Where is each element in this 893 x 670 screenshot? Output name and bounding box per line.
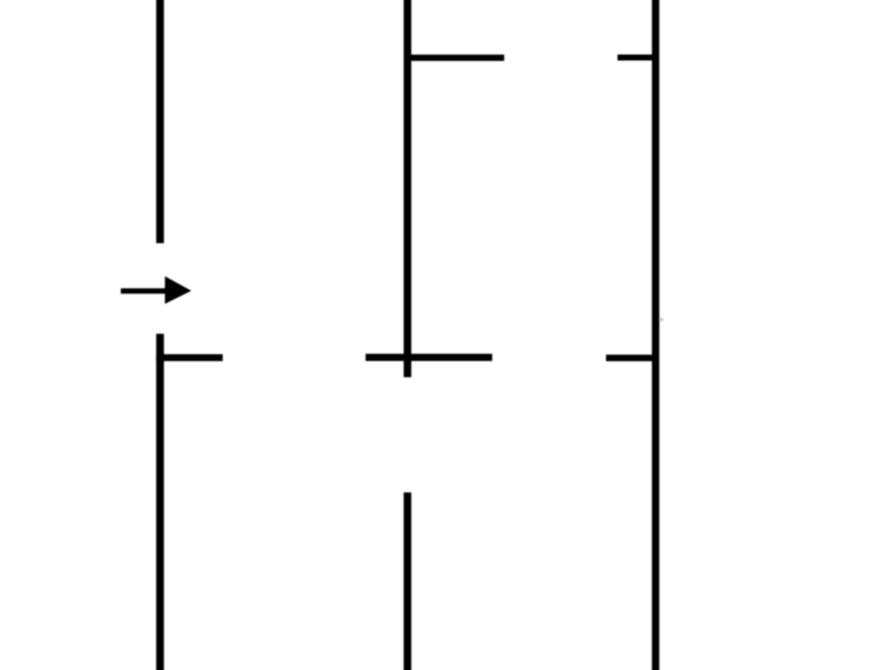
- wire: middle vertical bus, lower segment: [404, 492, 412, 670]
- wire: middle horizontal crossing at node C: [366, 354, 493, 361]
- wire: right middle horizontal stub at node D: [606, 355, 655, 362]
- arrow: signal/current direction into node A (shaft): [121, 288, 168, 293]
- wire: middle vertical bus, upper segment: [404, 0, 412, 377]
- wire: middle top horizontal stub (pin tap): [407, 55, 504, 61]
- wire: right vertical bus: [652, 0, 659, 670]
- arrow: head: [165, 276, 191, 304]
- wire: left vertical bus, lower segment: [156, 334, 164, 670]
- scan artifact speck near right bus: [659, 318, 663, 322]
- wire: left vertical bus, upper segment: [156, 0, 164, 243]
- wire: right top horizontal stub (pin tap): [618, 55, 656, 61]
- wire: left horizontal stub at node B: [156, 354, 222, 361]
